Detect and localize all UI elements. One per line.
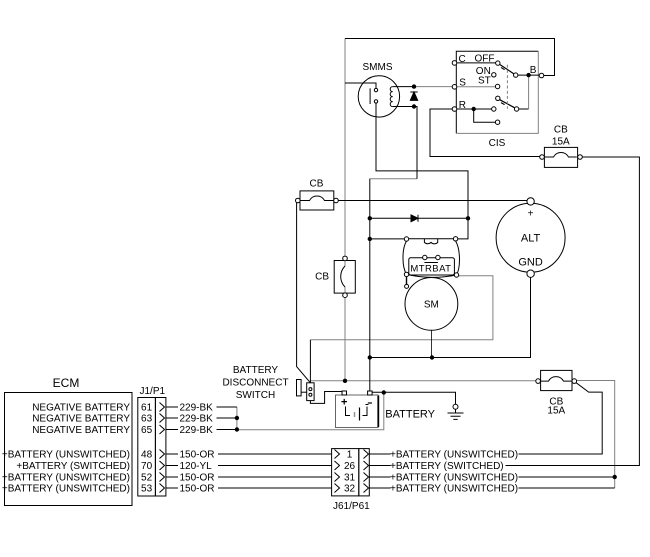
CIS terminal S: [452, 85, 457, 90]
svg-text:NEGATIVE BATTERY: NEGATIVE BATTERY: [32, 403, 130, 414]
ECM box: [5, 393, 133, 506]
wire pin31 row: [519, 476, 615, 478]
svg-text:+BATTERY (SWITCHED): +BATTERY (SWITCHED): [390, 461, 504, 472]
connector chevron J1/P1 pin 52: [160, 473, 165, 482]
CIS C line: [457, 62, 496, 64]
wire J61/P61 to right labels: [369, 454, 390, 488]
CIS pole2 link: [519, 108, 529, 110]
junction pin 31 node: [613, 475, 617, 479]
wire switch bottom to battery plus: [310, 392, 342, 404]
svg-text:+BATTERY (UNSWITCHED): +BATTERY (UNSWITCHED): [390, 484, 518, 495]
junction ground bus left node: [368, 355, 372, 359]
svg-text:229-BK: 229-BK: [180, 425, 214, 436]
wire pin32 row: [519, 487, 615, 489]
SMMS relay: [358, 76, 399, 117]
CIS contact ST: [495, 84, 499, 88]
svg-text:ECM: ECM: [53, 376, 80, 390]
svg-text:DISCONNECT: DISCONNECT: [222, 377, 288, 388]
wire MTRBAT left lead: [370, 238, 405, 240]
circuit breaker CB left: [296, 179, 339, 211]
CIS S line: [457, 86, 496, 88]
CIS lower blade: [500, 100, 515, 108]
svg-text:+BATTERY (SWITCHED): +BATTERY (SWITCHED): [16, 461, 130, 472]
connector chevron J61 pin 32: [335, 484, 340, 493]
wire CB left down diagonal to switch: [297, 203, 311, 383]
connector chevron J1/P1 pin 53: [160, 484, 165, 493]
CIS dashed linkage: [506, 65, 508, 109]
svg-text:+BATTERY (UNSWITCHED): +BATTERY (UNSWITCHED): [2, 484, 130, 495]
svg-text:S: S: [459, 78, 466, 89]
wire main bus CB to ALT: [338, 200, 527, 202]
wire stubs J1/P1 negative rows: [166, 407, 178, 430]
ground: [448, 404, 464, 419]
connector chevron P61 pin 32: [364, 484, 369, 493]
svg-text:52: 52: [141, 473, 153, 484]
svg-text:229-BK: 229-BK: [180, 414, 214, 425]
svg-text:229-BK: 229-BK: [180, 403, 214, 414]
CIS box: [456, 51, 538, 133]
circuit breaker CB 15A top right: [540, 124, 583, 167]
junction CIS R node: [472, 107, 476, 111]
starter relay MTRBAT: [403, 237, 460, 278]
wire 150-OR 120-YL rows to J61/P61: [218, 454, 332, 488]
CIS upper blade: [500, 65, 514, 74]
wire stubs J1/P1 positive rows: [166, 454, 178, 488]
svg-text:48: 48: [141, 450, 153, 461]
wire battery minus to ground: [372, 392, 455, 404]
battery: [336, 391, 379, 428]
wire ALT GND to ground bus: [370, 277, 531, 357]
wire SMMS bottom to MTRBAT right: [376, 103, 468, 239]
svg-text:150-OR: 150-OR: [180, 473, 215, 484]
CIS contact lower OFF: [496, 96, 500, 100]
svg-text:70: 70: [141, 461, 153, 472]
CIS R line: [457, 109, 496, 122]
connector chevron P61 pin 31: [364, 473, 369, 482]
svg-text:15A: 15A: [547, 406, 565, 417]
wire gray y178.8: [370, 178, 417, 180]
junction 229-BK node 2: [235, 427, 239, 431]
junction 229-BK node 1: [235, 416, 239, 420]
CIS terminal R: [452, 107, 457, 112]
CIS pole lower: [514, 107, 518, 111]
diode D2 horizontal: [411, 215, 418, 222]
CIS contact ON: [492, 73, 496, 77]
svg-text:J1/P1: J1/P1: [140, 386, 166, 397]
J1/P1 connector: [138, 398, 156, 497]
svg-text:32: 32: [344, 484, 356, 495]
CIS contact ST lower: [495, 120, 499, 124]
svg-text:C: C: [459, 54, 466, 65]
CIS B branch gray: [528, 75, 530, 109]
wire top CB to pin 26: [506, 157, 640, 466]
wire diode row: [370, 217, 468, 219]
svg-text:150-OR: 150-OR: [180, 450, 215, 461]
wire SMMS left tap: [345, 83, 376, 88]
wire main vertical to battery: [369, 179, 371, 391]
svg-text:150-OR: 150-OR: [180, 484, 215, 495]
connector chevron J1/P1 pin 65: [160, 425, 165, 434]
wire gray 229-BK return: [237, 393, 384, 430]
wire 229-BK rows to junction: [217, 407, 237, 430]
svg-text:B: B: [530, 65, 537, 76]
svg-text:SM: SM: [424, 300, 439, 311]
svg-text:ALT: ALT: [521, 233, 541, 245]
connector chevron P61 pin 26: [364, 461, 369, 470]
svg-text:+BATTERY (UNSWITCHED): +BATTERY (UNSWITCHED): [2, 450, 130, 461]
svg-text:BATTERY: BATTERY: [233, 365, 279, 376]
SMMS contact upper: [374, 88, 377, 91]
svg-text:61: 61: [141, 403, 153, 414]
wire gray battery plus bus: [310, 380, 535, 382]
wire CIS R to top CB: [430, 109, 540, 157]
wire SMMS coil bottom to diode: [393, 107, 417, 179]
junction diode D2 left node: [368, 216, 372, 220]
connector chevron J1/P1 pin 63: [160, 414, 165, 423]
connector chevron J1/P1 pin 61: [160, 403, 165, 412]
svg-text:CB: CB: [315, 272, 329, 283]
battery disconnect switch: [297, 380, 315, 401]
svg-text:OFF: OFF: [475, 53, 495, 64]
svg-text:ST: ST: [478, 76, 491, 87]
circuit breaker CB vertical: [315, 256, 355, 297]
junction diode D1 anode node: [412, 84, 416, 88]
svg-text:J61/P61: J61/P61: [333, 501, 370, 512]
starter motor SM: [405, 277, 458, 331]
svg-text:1: 1: [347, 450, 353, 461]
svg-text:BATTERY: BATTERY: [385, 409, 435, 421]
alternator ALT: [496, 198, 565, 278]
svg-text:31: 31: [344, 473, 356, 484]
connector chevron J61 pin 1: [335, 450, 340, 459]
SMMS contact lower: [374, 100, 377, 103]
CIS terminal C: [452, 61, 457, 66]
SMMS coil: [390, 87, 393, 107]
junction diode D2 right node: [466, 216, 470, 220]
svg-text:+: +: [528, 209, 534, 220]
junction SM ground node: [430, 355, 434, 359]
junction CIS B node: [526, 73, 530, 77]
svg-text:63: 63: [141, 414, 153, 425]
connector chevron J61 pin 31: [335, 473, 340, 482]
svg-text:CB: CB: [554, 124, 568, 135]
connector chevron P61 pin 1: [364, 450, 369, 459]
svg-text:+BATTERY (UNSWITCHED): +BATTERY (UNSWITCHED): [390, 450, 518, 461]
svg-text:NEGATIVE BATTERY: NEGATIVE BATTERY: [32, 425, 130, 436]
junction diode D1 cathode node: [412, 104, 416, 108]
CIS pole1 to B: [518, 74, 539, 76]
svg-text:15A: 15A: [552, 137, 570, 148]
svg-text:+BATTERY (UNSWITCHED): +BATTERY (UNSWITCHED): [2, 473, 130, 484]
wire SM drop: [430, 330, 432, 357]
wire gray left loop vertical: [344, 39, 346, 381]
CIS terminal B: [539, 73, 544, 78]
wire top loop to CIS B: [345, 39, 555, 76]
CIS contact OFF: [496, 61, 500, 65]
SMMS switch bar: [369, 88, 371, 104]
svg-text:+BATTERY (UNSWITCHED): +BATTERY (UNSWITCHED): [390, 473, 518, 484]
wire gray MTRBAT loop: [310, 276, 493, 340]
diode D1 vertical: [410, 92, 417, 100]
svg-text:NEGATIVE BATTERY: NEGATIVE BATTERY: [32, 414, 130, 425]
svg-text:CIS: CIS: [489, 138, 506, 149]
CIS pole upper: [514, 73, 518, 77]
J61/P61 connector: [332, 449, 359, 496]
svg-text:CB: CB: [310, 179, 324, 190]
svg-text:+: +: [341, 397, 347, 409]
svg-text:GND: GND: [518, 257, 543, 269]
wire gray coil top to S terminal: [414, 86, 452, 88]
junction battery negative node: [382, 390, 386, 394]
svg-text:SMMS: SMMS: [363, 62, 393, 73]
svg-text:120-YL: 120-YL: [180, 461, 213, 472]
svg-text:65: 65: [141, 425, 153, 436]
svg-text:53: 53: [141, 484, 153, 495]
wire pin1 row to right CB: [519, 383, 603, 454]
junction MTRBAT feed node: [368, 237, 372, 241]
wire SMMS coil top to diode: [393, 86, 414, 88]
connector chevron J1/P1 pin 70: [160, 461, 165, 470]
wire gray right CB to pins 31 32: [576, 381, 614, 489]
svg-text:MTRBAT: MTRBAT: [410, 264, 451, 275]
wire switch top vertical: [309, 340, 311, 383]
connector chevron J1/P1 pin 48: [160, 450, 165, 459]
circuit breaker CB 15A right: [536, 370, 577, 416]
connector chevron J61 pin 26: [335, 461, 340, 470]
CIS contact R: [492, 107, 496, 111]
svg-text:R: R: [459, 100, 466, 111]
svg-text:26: 26: [344, 461, 356, 472]
junction battery positive node: [343, 379, 347, 383]
svg-text:SWITCH: SWITCH: [236, 390, 275, 401]
